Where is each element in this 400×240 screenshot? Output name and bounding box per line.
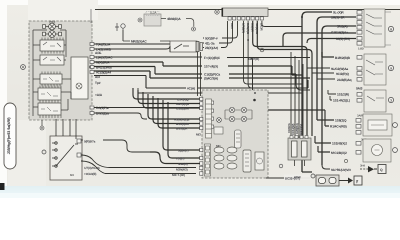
resistor R2 (blower resistor) bbox=[356, 114, 397, 142]
node 5 (small callout) bbox=[344, 159, 347, 162]
svg-text:M3N(R3): M3N(R3) bbox=[176, 167, 188, 171]
wire 9A?R1 with arrow terminal Q bbox=[322, 165, 386, 174]
capacitor C1 bbox=[235, 130, 242, 148]
svg-text:9A?R1(U#)V/#: 9A?R1(U#)V/# bbox=[331, 168, 351, 172]
control unit N2 (instrument cluster) bbox=[200, 90, 312, 178]
bottom blue strip bbox=[0, 186, 400, 198]
svg-text:B1R/2(B)B: B1R/2(B)B bbox=[335, 56, 351, 60]
wire 1/7(3)#9-RC and +O/A3(E) bbox=[81, 155, 196, 168]
wire code DC32 bbox=[284, 175, 311, 181]
S4 contacts and wiper bbox=[52, 142, 78, 167]
relay K4 bbox=[38, 88, 61, 100]
wire DC32 (N2 output) bbox=[266, 177, 311, 179]
svg-text:G1S14(2)Aa: G1S14(2)Aa bbox=[331, 31, 348, 35]
wire (X1 pin6 to right bundle via y46) bbox=[253, 21, 307, 142]
wire (feeds to S2) bbox=[322, 52, 334, 57]
N2 connector pins (left edge) bbox=[200, 97, 214, 175]
wire 1S?-(4)(X) bbox=[94, 62, 302, 75]
connector X2 (double receptacle) bbox=[288, 136, 311, 167]
wire 9(R)9/7a bbox=[81, 140, 150, 153]
wire 14(3)-(R9) bbox=[307, 39, 356, 44]
svg-text:3(2)R(7): 3(2)R(7) bbox=[178, 149, 188, 153]
control unit N1 (left module) bbox=[21, 21, 92, 131]
svg-text:9C/2(R)Q: 9C/2(R)Q bbox=[336, 72, 349, 76]
relay K6 (fan relay) bbox=[170, 41, 203, 96]
svg-text:C1R(X)Q: C1R(X)Q bbox=[177, 98, 189, 102]
wire (center vertical group with codes) bbox=[290, 52, 292, 140]
svg-text:1M(3)+2R: 1M(3)+2R bbox=[331, 16, 345, 20]
svg-text:+O/A3(E): +O/A3(E) bbox=[84, 172, 96, 176]
wire C1/(2)(P)Ca bbox=[94, 67, 296, 85]
node 6 (ring at row-57 drop) bbox=[260, 48, 264, 52]
fuse F1 (1L2A) bbox=[138, 11, 194, 27]
svg-text:1M0?(R): 1M0?(R) bbox=[248, 57, 259, 61]
wire (X1 pin7 to right bundle via y49.5) bbox=[257, 21, 312, 136]
svg-text:1S1/2(R): 1S1/2(R) bbox=[337, 93, 349, 97]
title tab (rotated page label) bbox=[4, 103, 16, 169]
svg-text:23(X)(A#): 23(X)(A#) bbox=[205, 46, 218, 50]
wire (bundle bends to X3) bbox=[302, 12, 332, 17]
connector strip inside N2 (upper ladder) bbox=[206, 99, 212, 138]
wire (K6 outputs to X1 pins 2-4) bbox=[203, 21, 238, 48]
scan paper area bbox=[7, 5, 400, 187]
relay K1 bbox=[40, 40, 64, 51]
indicator lamps H1-H4 bbox=[217, 107, 247, 122]
svg-text:C1/2(3)9R: C1/2(3)9R bbox=[176, 107, 190, 111]
svg-text:M3+7.(3#): M3+7.(3#) bbox=[172, 173, 185, 177]
node junction dots bbox=[247, 39, 249, 41]
svg-text:9X/3: 9X/3 bbox=[230, 23, 234, 29]
wire (row 93) bbox=[138, 86, 302, 93]
wire 1M(3)+2R bbox=[317, 17, 356, 120]
svg-text:4B02(D)A: 4B02(D)A bbox=[167, 17, 181, 21]
svg-text:M(X)3R/A: M(X)3R/A bbox=[96, 61, 110, 65]
svg-text:RA(3)P/a: RA(3)P/a bbox=[96, 106, 109, 110]
regulator U1 and gauge G1 bbox=[243, 150, 251, 172]
svg-text:5R/3(A): 5R/3(A) bbox=[337, 25, 347, 29]
svg-text:MR/2(X)AC: MR/2(X)AC bbox=[131, 40, 147, 44]
wire (5)4C/3(A) bbox=[94, 71, 310, 78]
svg-text:(5)4C/3(A): (5)4C/3(A) bbox=[204, 77, 218, 81]
node 2 (callout circle) bbox=[21, 65, 26, 70]
node 3 (callout circle) bbox=[40, 126, 44, 130]
svg-text:B1/2(3)9R: B1/2(3)9R bbox=[176, 122, 190, 126]
svg-text:J39/Hg(F)m93 9a(kRf): J39/Hg(F)m93 9a(kRf) bbox=[7, 117, 11, 155]
svg-text:9L/G2(W)Aa: 9L/G2(W)Aa bbox=[331, 67, 348, 71]
svg-text:M/3: M/3 bbox=[196, 133, 201, 137]
svg-text:2A/3(B)Aq: 2A/3(B)Aq bbox=[337, 78, 352, 82]
X3 pins bbox=[357, 11, 362, 46]
wire G1S14(2)Aa bbox=[283, 33, 356, 47]
wire braid (staircase bundle into N2) bbox=[133, 88, 200, 164]
svg-text:M'C1/B(X)2: M'C1/B(X)2 bbox=[331, 151, 347, 155]
motor M1 (twin fan symbols) bbox=[43, 23, 62, 37]
switch S4 (multi-position, bottom-left) bbox=[42, 119, 82, 180]
wire MR/2(X)AC bbox=[123, 40, 170, 42]
svg-text:ecvc: ecvc bbox=[294, 175, 301, 179]
svg-text:42).-3a: 42).-3a bbox=[205, 41, 215, 45]
relay K5 bbox=[38, 103, 61, 115]
svg-text:7(7)(!'): 7(7)(!') bbox=[176, 157, 184, 161]
N1 enclosure bbox=[29, 21, 92, 120]
relay K2 bbox=[40, 55, 64, 65]
motor M2 (blower motor) bbox=[356, 139, 397, 168]
svg-text:1:8D: 1:8D bbox=[358, 47, 364, 51]
wire codes at X3 bbox=[331, 11, 350, 42]
svg-text:9A/3: 9A/3 bbox=[356, 87, 363, 91]
svg-text:N4B(R): N4B(R) bbox=[178, 162, 188, 166]
wire 5R/3(A) bbox=[322, 26, 356, 165]
wire (N1 pins to K6) bbox=[94, 44, 170, 52]
svg-text:#C(A): #C(A) bbox=[187, 87, 195, 91]
wire #C(A) bbox=[94, 76, 308, 89]
svg-text:14(3)-(R9): 14(3)-(R9) bbox=[336, 37, 350, 41]
wire (X1 pin drops) bbox=[244, 21, 303, 84]
wire (N1 to S4 drops) bbox=[56, 119, 76, 139]
svg-text:9(R)9/7a: 9(R)9/7a bbox=[84, 140, 96, 144]
svg-text:F=(1)Q(B)C: F=(1)Q(B)C bbox=[204, 56, 221, 60]
switch S3 with connector X5 bbox=[357, 90, 394, 118]
wire codes at N2 pins bbox=[172, 98, 201, 178]
connector pins of N1 (right edge) bbox=[90, 43, 94, 115]
X1 pin wire codes bbox=[230, 23, 264, 34]
relay K4a (mid block) bbox=[40, 74, 62, 84]
svg-text:1S?-(4)(X): 1S?-(4)(X) bbox=[204, 65, 218, 69]
svg-text:3M(3): 3M(3) bbox=[49, 21, 56, 24]
wire (N1 internal links) bbox=[33, 30, 71, 126]
registration mark bbox=[0, 183, 5, 190]
X1 pin row 1-8 bbox=[228, 17, 263, 20]
svg-text:9L-(X)R: 9L-(X)R bbox=[333, 11, 344, 15]
svg-text:1L2A: 1L2A bbox=[150, 11, 157, 15]
svg-text:3H4: 3H4 bbox=[360, 164, 365, 168]
switch S1 with connector X3 bbox=[357, 9, 394, 51]
svg-text:B0/3(2)R: B0/3(2)R bbox=[176, 127, 188, 131]
gauge coils L1-L6 bbox=[214, 147, 237, 169]
svg-text:=A/A: =A/A bbox=[95, 93, 103, 97]
switch S2 with connector X4 bbox=[357, 54, 394, 85]
svg-text:1S1+R(2)[L]: 1S1+R(2)[L] bbox=[333, 99, 350, 103]
svg-text:M3: M3 bbox=[70, 173, 74, 177]
svg-text:AB1(3)Qa: AB1(3)Qa bbox=[176, 102, 189, 106]
svg-text:B0/3(X)4: B0/3(X)4 bbox=[299, 124, 303, 135]
svg-text:A/3L: A/3L bbox=[95, 51, 102, 55]
svg-text:9(X)3/F-#: 9(X)3/F-# bbox=[205, 36, 218, 40]
thermoswitch B1 bbox=[115, 23, 125, 41]
svg-text:R1/4C+(RB): R1/4C+(RB) bbox=[330, 125, 347, 129]
wire (right vertical bundle) bbox=[302, 17, 312, 172]
svg-text:1S8(2)Q: 1S8(2)Q bbox=[335, 119, 347, 123]
wire (top bus rule) bbox=[95, 9, 400, 11]
svg-text:Tp#: Tp# bbox=[95, 81, 101, 85]
wire F=(1)Q(B)C bbox=[94, 57, 310, 99]
svg-text:1S1N9(X)2: 1S1N9(X)2 bbox=[332, 142, 347, 146]
svg-text:7(A)(7)L/A: 7(A)(7)L/A bbox=[96, 43, 111, 47]
svg-text:3A/R: 3A/R bbox=[357, 114, 363, 118]
in-line connectors R1-R2 with arrow to W bbox=[311, 174, 362, 186]
svg-text:A5(W)R(2)a: A5(W)R(2)a bbox=[174, 118, 190, 122]
wire RA(3)P/a and BW3(2)/a bbox=[94, 107, 200, 109]
relay K3 (inner box with X lamp) bbox=[71, 57, 88, 99]
node 4 (callout circle) bbox=[192, 27, 196, 31]
svg-text:L(A)3(7)/AC: L(A)3(7)/AC bbox=[96, 56, 113, 60]
connector X1 (8-way, top) bbox=[215, 8, 268, 34]
svg-text:BW3(2)/a: BW3(2)/a bbox=[96, 112, 109, 116]
